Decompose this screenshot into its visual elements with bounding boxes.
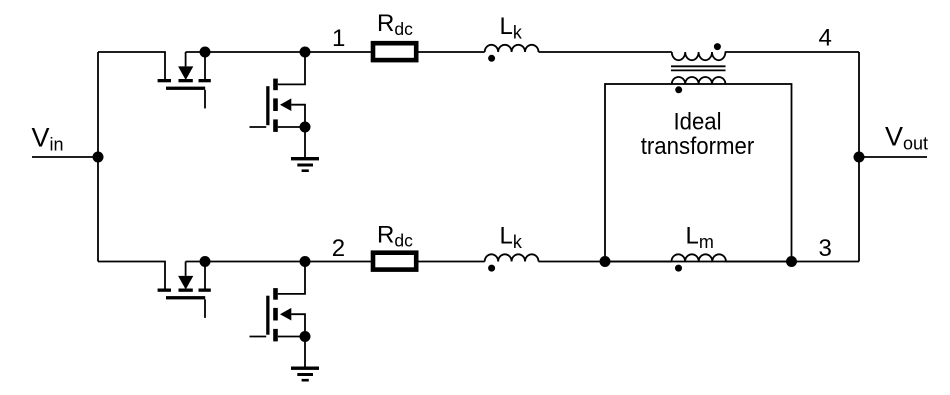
wire Q4 source to ground [304,337,306,367]
ground G1 [291,157,319,172]
diode D4 body diode of Q4 [280,308,305,337]
node 1 dot on top rail [300,47,311,58]
svg-text:4: 4 [819,24,832,51]
wire Q4 drain connection [278,262,305,294]
wire bottom rail Q3 source to R2 [186,261,371,263]
diode D1 body diode of Q1 [178,52,193,80]
svg-text:Vout: Vout [885,121,928,153]
wire bottom rail left bend into Q3 drain [98,262,165,291]
polarity dot Lk2 [488,265,495,272]
resistor R2 Rdc bottom [373,253,416,270]
wire Q3 source bar riser [204,262,206,291]
node dot Vin junction [93,152,104,163]
wire Q2 source to ground [304,127,306,157]
wire top rail Lk1 to transformer [539,51,672,53]
wire bottom rail R2 to Lk2 [418,261,484,263]
polarity dot Lk1 [488,55,495,62]
diode D3 body diode of Q3 [178,262,193,290]
transformer T1 primary winding (top, bumps down) [672,52,726,60]
svg-text:2: 2 [332,235,345,262]
transistor Q3 (bottom horizontal MOSFET) [158,289,211,318]
wire bottom rail box left to Lm [605,261,672,263]
node dot Q3 source on bottom rail [200,256,211,267]
wire right edge vertical [858,52,860,262]
wire Vout lead [859,156,927,158]
node dot box left on bottom rail [600,256,611,267]
wire top rail R1 to Lk1 [418,51,484,53]
wire Vin lead [32,156,98,158]
svg-text:Rdc: Rdc [377,222,413,251]
node 2 dot on bottom rail [300,256,311,267]
polarity dot Lm [675,265,682,272]
svg-text:Lm: Lm [686,222,714,252]
svg-text:Vin: Vin [32,123,64,155]
transistor Q1 (top horizontal MOSFET) [158,79,211,108]
node dot Q4 source [300,331,311,342]
svg-text:Rdc: Rdc [377,10,413,39]
node dot Q2 source [300,122,311,133]
wire bottom rail Lk2 to box left [539,261,606,263]
polarity dot T1 primary [714,43,721,50]
transformer T1 secondary winding (on box top, bumps up) [672,77,726,84]
inductor Lk1 top [485,45,539,52]
ideal transformer box [605,84,792,262]
wire top rail left bend into Q1 drain [98,52,165,81]
wire top rail transformer to right edge [725,51,859,53]
diode D2 body diode of Q2 [280,98,305,127]
wire Q1 source bar riser [204,52,206,81]
transistor Q4 (bottom vertical MOSFET) [250,288,306,341]
wire bottom rail Lm to right edge [726,261,859,263]
svg-text:1: 1 [332,25,345,52]
node 3 dot box right on bottom rail [786,256,797,267]
transistor Q2 (top vertical MOSFET) [250,79,306,132]
inductor Lm [672,254,726,261]
wire left riser [97,52,99,262]
svg-text:Ideal: Ideal [674,108,722,135]
wire Q2 drain connection [278,52,305,84]
resistor R1 Rdc top [373,43,416,60]
wire top rail Q1 source to R1 [186,51,371,53]
svg-text:Lk: Lk [500,223,523,253]
ground G2 [291,367,319,382]
svg-text:transformer: transformer [641,133,755,160]
transformer T1 core lines [671,66,726,70]
polarity dot T1 secondary [675,86,682,93]
node dot Q1 source on top rail [200,47,211,58]
inductor Lk2 bottom [485,254,539,261]
svg-text:3: 3 [819,235,832,262]
svg-text:Lk: Lk [500,13,523,43]
node dot Vout junction [854,152,865,163]
